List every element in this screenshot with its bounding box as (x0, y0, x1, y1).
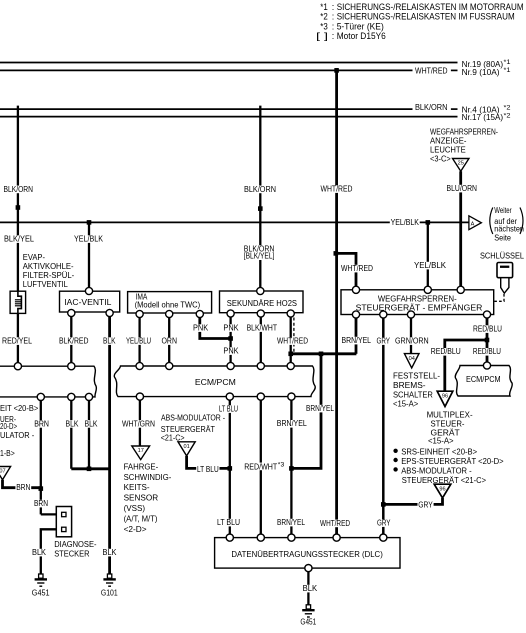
svg-text:ANZEIGE-: ANZEIGE- (430, 136, 467, 145)
svg-text:*3: *3 (278, 463, 285, 469)
svg-text:KEITS-: KEITS- (124, 483, 150, 492)
svg-text:BLK/ORN: BLK/ORN (244, 185, 276, 194)
svg-text:07: 07 (0, 469, 6, 475)
svg-text:A: A (471, 221, 475, 227)
svg-text:PNK: PNK (223, 324, 239, 333)
svg-text:Nr.17 (15A): Nr.17 (15A) (462, 113, 504, 122)
svg-text:LT BLU: LT BLU (217, 518, 240, 527)
svg-text:01: 01 (183, 444, 189, 450)
svg-text:*2: *2 (504, 106, 512, 112)
svg-text:IAC-VENTIL: IAC-VENTIL (64, 298, 112, 307)
svg-text::: : (332, 2, 335, 12)
svg-text:BLK/YEL: BLK/YEL (4, 235, 35, 244)
svg-text:GRN/ORN: GRN/ORN (395, 337, 429, 346)
svg-text:Seite: Seite (494, 233, 511, 242)
svg-text:DATENÜBERTRAGUNGSSTECKER (DLC): DATENÜBERTRAGUNGSSTECKER (DLC) (231, 550, 383, 559)
svg-text:WHT/RED: WHT/RED (341, 264, 373, 273)
svg-text:*2: *2 (504, 114, 512, 120)
svg-text:STEUER-: STEUER- (431, 420, 465, 429)
svg-text:LT BLU: LT BLU (197, 465, 219, 474)
svg-text:*1: *1 (320, 2, 328, 12)
svg-text:YEL/BLK: YEL/BLK (391, 218, 420, 227)
svg-text:WHT/RED: WHT/RED (320, 519, 350, 528)
svg-text:[BLK/YEL]: [BLK/YEL] (244, 252, 275, 261)
svg-text:SCHALTER: SCHALTER (393, 391, 433, 400)
svg-text:WHT/RED: WHT/RED (321, 185, 353, 194)
svg-text:Nr.9 (10A): Nr.9 (10A) (462, 68, 500, 77)
svg-text:STEUERGERÄT <21-C>: STEUERGERÄT <21-C> (402, 476, 487, 485)
svg-text:GRY: GRY (418, 501, 433, 510)
svg-text:DIAGNOSE-: DIAGNOSE- (54, 540, 97, 549)
svg-text:ABS-MODULATOR -: ABS-MODULATOR - (161, 414, 225, 423)
svg-text:FESTSTELL-: FESTSTELL- (393, 372, 440, 381)
svg-text:SRS-EINHEIT <20-B>: SRS-EINHEIT <20-B> (401, 448, 477, 457)
svg-text:BLK: BLK (85, 419, 99, 428)
svg-text:MULTIPLEX-: MULTIPLEX- (427, 410, 473, 419)
svg-text:G451: G451 (32, 589, 50, 598)
svg-text:BRN: BRN (34, 499, 48, 508)
svg-text:<2-D>: <2-D> (124, 525, 147, 534)
svg-text:BLK: BLK (103, 337, 116, 346)
svg-text:FILTER-SPÜL-: FILTER-SPÜL- (23, 271, 75, 280)
svg-text:17: 17 (138, 448, 144, 454)
svg-text:SENSOR: SENSOR (124, 494, 159, 503)
svg-text:BLU/ORN: BLU/ORN (447, 184, 478, 193)
svg-text:1-B>: 1-B> (0, 449, 15, 458)
svg-text:BRN: BRN (16, 483, 30, 492)
svg-text:WEGFAHRSPERREN-: WEGFAHRSPERREN- (430, 127, 498, 136)
svg-text:GRY: GRY (377, 337, 391, 346)
svg-text:YEL/BLK: YEL/BLK (414, 261, 447, 270)
svg-text:FAHRGE-: FAHRGE- (124, 462, 159, 471)
svg-text:25: 25 (458, 161, 464, 167)
svg-text:BREMS-: BREMS- (393, 381, 426, 390)
svg-text:*1: *1 (504, 68, 512, 74)
svg-text:(VSS): (VSS) (124, 504, 146, 513)
svg-text:LEUCHTE: LEUCHTE (430, 145, 466, 154)
svg-text:ECM/PCM: ECM/PCM (466, 375, 501, 384)
svg-text:BRN/YEL: BRN/YEL (277, 518, 305, 527)
svg-text:PNK: PNK (193, 324, 209, 333)
svg-text:EVAP-: EVAP- (23, 253, 46, 262)
svg-text:RED/BLU: RED/BLU (473, 347, 501, 356)
svg-text:STECKER: STECKER (54, 550, 90, 559)
svg-text:RED/YEL: RED/YEL (2, 337, 32, 346)
svg-text::: : (332, 31, 335, 41)
svg-text:PNK: PNK (223, 347, 239, 356)
svg-text:WEGFAHRSPERREN-: WEGFAHRSPERREN- (378, 294, 457, 303)
svg-text:LT BLU: LT BLU (219, 405, 238, 414)
svg-text:ABS-MODULATOR -: ABS-MODULATOR - (401, 466, 472, 475)
svg-text:[ ]: [ ] (316, 31, 328, 41)
svg-text::: : (332, 12, 335, 22)
svg-text:96: 96 (439, 486, 445, 492)
svg-text:*2: *2 (320, 12, 328, 22)
svg-text:SICHERUNGS-/RELAISKASTEN IM MO: SICHERUNGS-/RELAISKASTEN IM MOTORRAUM (337, 2, 524, 12)
svg-text:AKTIVKOHLE-: AKTIVKOHLE- (23, 262, 74, 271)
svg-text:SICHERUNGS-/RELAISKASTEN IM FU: SICHERUNGS-/RELAISKASTEN IM FUSSRAUM (337, 12, 515, 22)
svg-text:SCHWINDIG-: SCHWINDIG- (124, 473, 172, 482)
svg-text:YEL/BLK: YEL/BLK (74, 235, 104, 244)
svg-text:<3-C>: <3-C> (430, 154, 451, 163)
svg-text:YEL/BLU: YEL/BLU (126, 337, 151, 346)
svg-text:GRY: GRY (377, 519, 391, 528)
svg-text:G101: G101 (101, 589, 118, 598)
svg-text:BLK: BLK (32, 548, 47, 557)
svg-text:BLK/ORN: BLK/ORN (415, 103, 448, 112)
svg-text:BLK/WHT: BLK/WHT (247, 324, 277, 333)
svg-text:*1: *1 (504, 60, 512, 66)
svg-text:(Modell ohne TWC): (Modell ohne TWC) (135, 301, 201, 310)
svg-text:EIT <20-B>: EIT <20-B> (0, 404, 39, 413)
svg-text:BLK/ORN: BLK/ORN (4, 185, 34, 194)
svg-text:(A/T, M/T): (A/T, M/T) (124, 514, 158, 523)
svg-text:BLK: BLK (303, 584, 318, 593)
svg-text:Motor D15Y6: Motor D15Y6 (337, 31, 386, 41)
svg-text:<15-A>: <15-A> (393, 400, 419, 409)
svg-text:96: 96 (442, 393, 448, 399)
svg-text:ULATOR -: ULATOR - (0, 431, 35, 440)
svg-text:ECM/PCM: ECM/PCM (195, 378, 236, 387)
svg-text:SEKUNDÄRE HO2S: SEKUNDÄRE HO2S (227, 299, 297, 308)
svg-text:BLK: BLK (103, 548, 118, 557)
svg-text:04: 04 (409, 356, 415, 362)
svg-text:BLK: BLK (66, 419, 80, 428)
svg-text:WHT/GRN: WHT/GRN (122, 419, 155, 428)
svg-text:WHT/RED: WHT/RED (277, 337, 308, 346)
svg-text:BRN/YEL: BRN/YEL (342, 336, 372, 345)
svg-text:LUFTVENTIL: LUFTVENTIL (23, 280, 69, 289)
svg-text:BRN/YEL: BRN/YEL (277, 419, 307, 428)
svg-text:SCHLÜSSEL: SCHLÜSSEL (480, 251, 525, 260)
svg-text:ORN: ORN (162, 337, 178, 346)
svg-text:<21-C>: <21-C> (161, 433, 185, 442)
svg-text:BLK/RED: BLK/RED (59, 337, 89, 346)
svg-text:RED/BLU: RED/BLU (431, 347, 461, 356)
svg-text:RED/BLU: RED/BLU (473, 325, 502, 334)
svg-text:BRN: BRN (34, 419, 49, 428)
svg-text:RED/WHT: RED/WHT (244, 463, 277, 472)
svg-text:BRN/YEL: BRN/YEL (306, 404, 334, 413)
svg-text:EPS-STEUERGERÄT <20-D>: EPS-STEUERGERÄT <20-D> (401, 457, 504, 466)
svg-text:WHT/RED: WHT/RED (415, 66, 448, 75)
svg-text:STEUERGERÄT - EMPFÄNGER: STEUERGERÄT - EMPFÄNGER (356, 303, 483, 312)
svg-text:<15-A>: <15-A> (428, 436, 454, 445)
svg-text:Weiter: Weiter (494, 206, 512, 215)
svg-text:G451: G451 (300, 618, 316, 627)
